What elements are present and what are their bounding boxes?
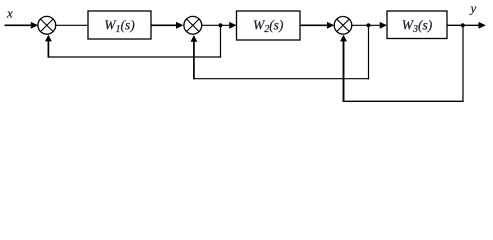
svg-text:W2(s): W2(s) xyxy=(253,18,284,36)
wire feedback loop 1 tap down xyxy=(220,25,222,57)
svg-text:x: x xyxy=(6,5,13,20)
svg-text:W3(s): W3(s) xyxy=(402,17,433,35)
wire S2 to W2 arrow xyxy=(202,22,237,29)
summing junction S2 xyxy=(184,16,202,34)
wire S3 to W3 arrow xyxy=(352,22,387,29)
wire W2 to S3 arrow xyxy=(300,22,334,29)
junction dot B xyxy=(366,23,370,27)
svg-text:W1(s): W1(s) xyxy=(104,18,135,36)
wire feedback loop 3 tap down xyxy=(462,25,464,102)
wire feedback loop 3 rise arrow into S3 xyxy=(340,35,347,102)
wire feedback loop 2 rise arrow into S2 xyxy=(191,35,198,79)
junction dot C xyxy=(461,23,465,27)
wire feedback loop 3 horizontal xyxy=(343,100,464,102)
junction dot A xyxy=(218,23,222,27)
block W1 xyxy=(88,11,151,39)
node x input label xyxy=(6,5,13,20)
wire feedback loop 2 tap down xyxy=(368,25,370,79)
wire W3 to output arrow xyxy=(447,22,486,29)
wire feedback loop 1 rise arrow into S1 xyxy=(45,35,52,58)
wire S1 to W1 xyxy=(56,24,88,26)
wire feedback loop 1 horizontal xyxy=(48,56,221,58)
node y output label xyxy=(469,1,477,16)
summing junction S1 xyxy=(38,16,56,34)
wire feedback loop 2 horizontal xyxy=(193,78,369,80)
summing junction S3 xyxy=(334,17,352,35)
svg-text:y: y xyxy=(469,1,477,16)
wire input arrow xyxy=(5,22,39,29)
block W3 xyxy=(387,11,447,39)
wire W1 to S2 arrow xyxy=(151,22,184,29)
block W2 xyxy=(237,11,301,40)
